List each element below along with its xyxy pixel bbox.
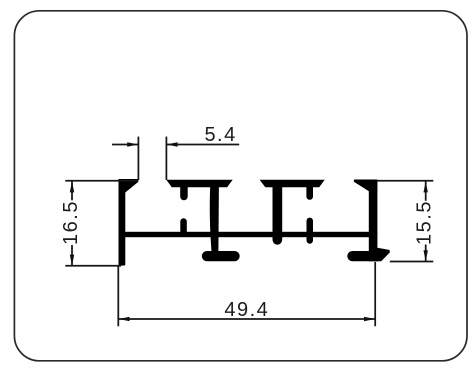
svg-text:16.5: 16.5 <box>60 200 82 245</box>
T2 stem <box>273 187 283 245</box>
svg-text:5.4: 5.4 <box>204 124 236 146</box>
dimension line 16.5 upper segment <box>71 181 73 200</box>
arrowhead 16.5 top (points up) <box>70 181 74 192</box>
extension line 49.4 left <box>117 267 119 327</box>
T2 right pin through web <box>307 218 314 244</box>
arrowhead 49.4 left (points left) <box>118 317 129 321</box>
extension line 16.5 bottom <box>65 265 121 267</box>
dimension line 15.5 upper segment <box>425 181 427 201</box>
T2 right hook <box>306 187 313 200</box>
T1 up stub <box>180 218 187 232</box>
arrowhead 5.4 right (points left) <box>166 142 177 146</box>
arrowhead 49.4 right (points right) <box>364 317 375 321</box>
left wall top flare <box>119 179 139 193</box>
T1 top bar <box>166 180 232 188</box>
T1 foot <box>202 251 240 261</box>
T1 stem <box>210 187 219 252</box>
arrowhead 5.4 left (points right) <box>127 142 138 146</box>
T2 top bar <box>260 180 325 188</box>
extension line 15.5 bottom <box>390 261 434 263</box>
dimension line 15.5 lower segment <box>425 245 427 262</box>
right foot wedge tip <box>377 248 390 262</box>
extension line 5.4 right <box>165 137 167 180</box>
dimension line 49.4 <box>118 318 375 320</box>
right foot <box>347 251 383 261</box>
extension line 15.5 top <box>377 180 433 182</box>
svg-text:15.5: 15.5 <box>414 200 436 245</box>
dimension leader 5.4 left segment <box>112 144 138 146</box>
right wall (profile outer right upright) <box>369 180 378 262</box>
extension line 5.4 left <box>137 137 139 180</box>
right wall top flare <box>354 180 377 192</box>
T1 left hook <box>180 187 188 201</box>
left wall (profile outer left upright) <box>119 179 126 266</box>
arrowhead 16.5 bottom (points down) <box>70 255 74 266</box>
extension line 16.5 top <box>65 180 138 182</box>
dimension line 16.5 lower segment <box>71 245 73 266</box>
dimension leader 5.4 right segment <box>166 144 239 146</box>
base web (bottom horizontal member) <box>119 232 378 237</box>
arrowhead 15.5 bottom (points down) <box>424 250 428 261</box>
arrowhead 15.5 top (points up) <box>424 181 428 192</box>
svg-text:49.4: 49.4 <box>224 299 269 321</box>
extension line 49.4 right <box>374 262 376 326</box>
